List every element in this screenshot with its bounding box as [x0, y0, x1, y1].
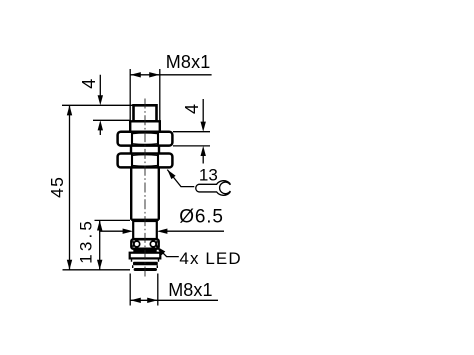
hex nut 1 — [118, 132, 173, 146]
svg-text:13.5: 13.5 — [76, 218, 95, 264]
bottom M8x1 left arrow — [130, 298, 140, 303]
top M8x1 dimension line — [130, 74, 211, 76]
6.5mm neck — [133, 221, 157, 239]
45 dim vertical line — [69, 105, 71, 269]
bottom M8x1 extension lines — [130, 274, 158, 306]
svg-text:4: 4 — [79, 79, 99, 89]
connector junction band — [133, 249, 156, 252]
left 4 dim: flange top extension line — [93, 119, 130, 121]
right 4 dim: nut top extension line — [173, 131, 210, 133]
45 dim top arrow — [67, 105, 72, 115]
right 4 dim upper arrow — [201, 122, 206, 132]
svg-text:4: 4 — [182, 104, 202, 114]
13.5 dim top arrow — [97, 220, 102, 230]
wrench icon — [196, 181, 231, 196]
13.5 dim vertical line — [99, 220, 101, 269]
left 4 dim vertical line — [99, 75, 101, 135]
left 4 dim upper arrow — [98, 95, 103, 105]
left 4 dim lower arrow — [98, 120, 103, 130]
top M8x1 right arrow — [149, 72, 159, 77]
right 4 dim: nut bottom extension line — [173, 145, 210, 147]
connector collar — [130, 253, 161, 259]
bottom extension line — [63, 269, 131, 271]
barrel flange below head — [130, 121, 160, 131]
barrel segment between nuts — [131, 146, 159, 154]
45 dim bottom arrow — [67, 260, 72, 270]
diameter 6.5 dim line right — [167, 230, 225, 232]
connector thread band 2 — [134, 268, 157, 271]
13 wrench leader arrow — [167, 170, 175, 180]
13.5 dim: neck shoulder extension line — [95, 219, 131, 221]
svg-text:M8x1: M8x1 — [166, 52, 211, 72]
connector side lines upper — [132, 259, 159, 261]
top M8x1 left arrow — [130, 72, 140, 77]
svg-text:4x LED: 4x LED — [179, 249, 241, 268]
center line — [144, 99, 146, 278]
bottom M8x1 dim line — [130, 299, 218, 301]
main barrel — [131, 168, 159, 220]
hex nut 2 — [118, 154, 173, 168]
13 wrench leader line — [167, 170, 194, 187]
bottom M8x1 right arrow — [147, 298, 157, 303]
13.5 dim bottom arrow — [97, 260, 102, 270]
diameter 6.5 dim line left — [100, 230, 124, 232]
4x LED leader arrow — [156, 246, 165, 255]
right 4 dim lower arrow — [201, 146, 206, 156]
svg-text:Ø6.5: Ø6.5 — [179, 206, 223, 227]
connector side lines lower — [133, 265, 158, 268]
left 4 dim: top face extension line — [62, 104, 133, 106]
4x LED leader line — [156, 246, 179, 256]
connector thread band 1 — [133, 262, 158, 266]
LED ring — [131, 239, 158, 248]
top M8x1 dimension extension lines — [130, 69, 160, 121]
sensor head (6mm top section) — [134, 105, 157, 121]
svg-text:45: 45 — [47, 176, 67, 198]
diameter 6.5 left arrow — [123, 229, 133, 234]
svg-text:M8x1: M8x1 — [168, 280, 212, 300]
right 4 dim vertical line — [202, 99, 204, 164]
diameter 6.5 right arrow — [157, 229, 167, 234]
svg-text:13: 13 — [199, 165, 218, 184]
